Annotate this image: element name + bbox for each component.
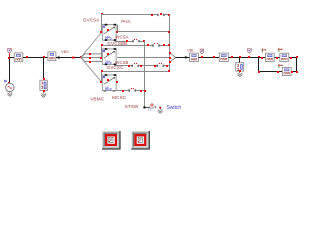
svg-text:STSW: STSW (125, 104, 139, 110)
svg-text:1 2: 1 2 (148, 108, 152, 112)
svg-text:GVCSC: GVCSC (107, 65, 125, 71)
svg-text:MOD: MOD (105, 87, 113, 91)
svg-text:GVCSBB: GVCSBB (107, 41, 127, 47)
svg-text:WCSA: WCSA (115, 35, 128, 40)
svg-text:PHA: PHA (121, 19, 130, 24)
svg-text:VBMC: VBMC (90, 96, 104, 102)
svg-text:MCSC: MCSC (112, 95, 127, 101)
svg-text:VBS: VBS (61, 50, 69, 54)
svg-text:GVCSA: GVCSA (83, 18, 100, 23)
svg-text:MOD: MOD (105, 61, 113, 65)
svg-text:MOD: MOD (105, 37, 113, 41)
svg-text:Switch: Switch (166, 105, 181, 111)
svg-text:WCSB: WCSB (115, 60, 128, 65)
svg-text:VBL: VBL (187, 49, 194, 53)
